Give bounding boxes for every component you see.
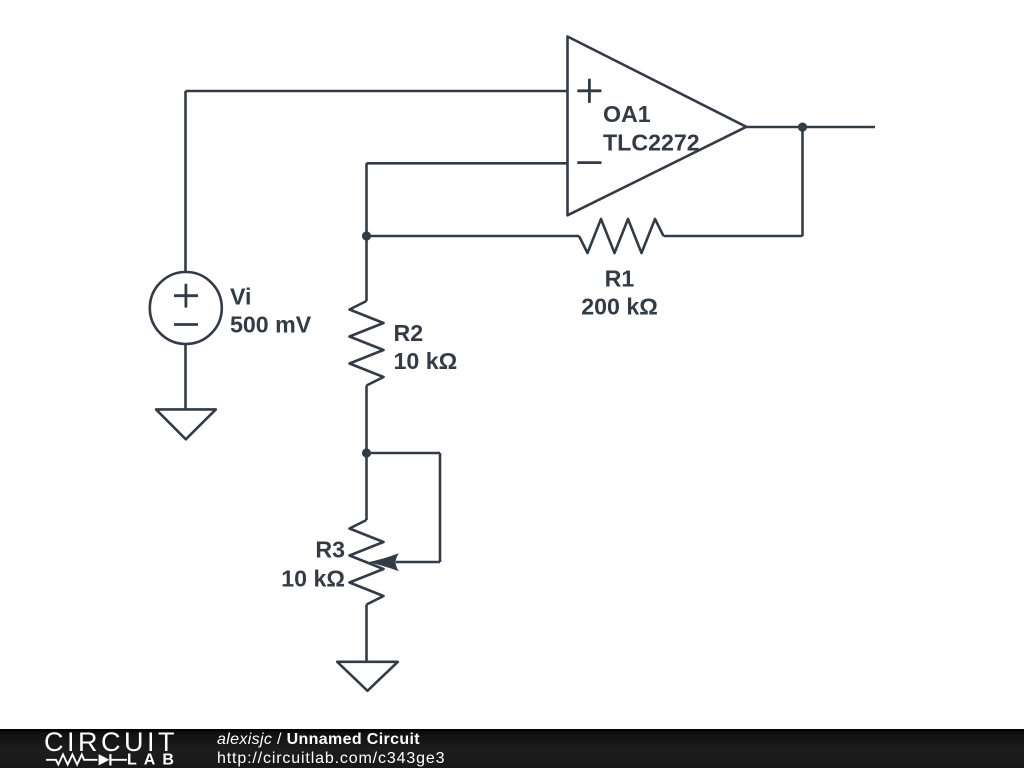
- ground (bottom): [337, 662, 398, 691]
- wire op-amp output: [746, 126, 875, 129]
- svg-text:TLC2272: TLC2272: [603, 130, 700, 156]
- logo resistor: [46, 755, 98, 765]
- svg-text:500 mV: 500 mV: [230, 312, 312, 338]
- potentiometer wiper arrow: [368, 553, 399, 571]
- wire R3 to ground: [365, 605, 368, 662]
- resistor R1: [579, 219, 664, 253]
- svg-text:Vi: Vi: [230, 284, 252, 310]
- wire Vi bottom: [184, 344, 187, 410]
- wire wiper vertical: [439, 453, 442, 562]
- footer bar: [0, 729, 1024, 768]
- svg-text:10 kΩ: 10 kΩ: [281, 566, 345, 592]
- resistor R2: [350, 301, 384, 386]
- wire Vi top vertical: [184, 91, 187, 273]
- op-amp plus input symbol: [577, 79, 601, 163]
- wire noninverting input horizontal: [186, 90, 568, 93]
- svg-text:LAB: LAB: [127, 752, 181, 768]
- svg-text:OA1: OA1: [603, 101, 651, 127]
- potentiometer R3: [350, 520, 384, 605]
- wire node down to R2: [365, 236, 368, 301]
- wire node to R1: [367, 235, 580, 238]
- wire inverting input down to node: [365, 163, 368, 236]
- svg-text:R2: R2: [394, 320, 424, 346]
- node output junction dot: [798, 123, 807, 132]
- node A junction dot: [362, 231, 371, 240]
- wire node2 right: [367, 452, 441, 455]
- svg-text:R1: R1: [605, 266, 635, 292]
- op-amp minus input symbol: [577, 161, 601, 164]
- wire R2 to node2: [365, 386, 368, 454]
- Vi minus sign: [174, 323, 198, 326]
- voltage source Vi: [150, 272, 222, 344]
- wire wiper horizontal: [396, 561, 440, 564]
- wire R1 to corner: [664, 235, 803, 238]
- Vi plus sign: [174, 294, 198, 297]
- wire node2 down to R3: [365, 453, 368, 520]
- svg-text:200 kΩ: 200 kΩ: [581, 294, 658, 320]
- svg-text:10 kΩ: 10 kΩ: [394, 348, 458, 374]
- ground (under Vi): [156, 409, 216, 439]
- footer credit text: [217, 730, 445, 768]
- op-amp U1 triangle: [568, 37, 747, 216]
- logo diode: [99, 754, 110, 765]
- svg-text:R3: R3: [315, 537, 345, 563]
- wire feedback vertical: [801, 127, 804, 236]
- wire inverting input horizontal: [367, 162, 568, 165]
- node B junction dot: [362, 448, 371, 457]
